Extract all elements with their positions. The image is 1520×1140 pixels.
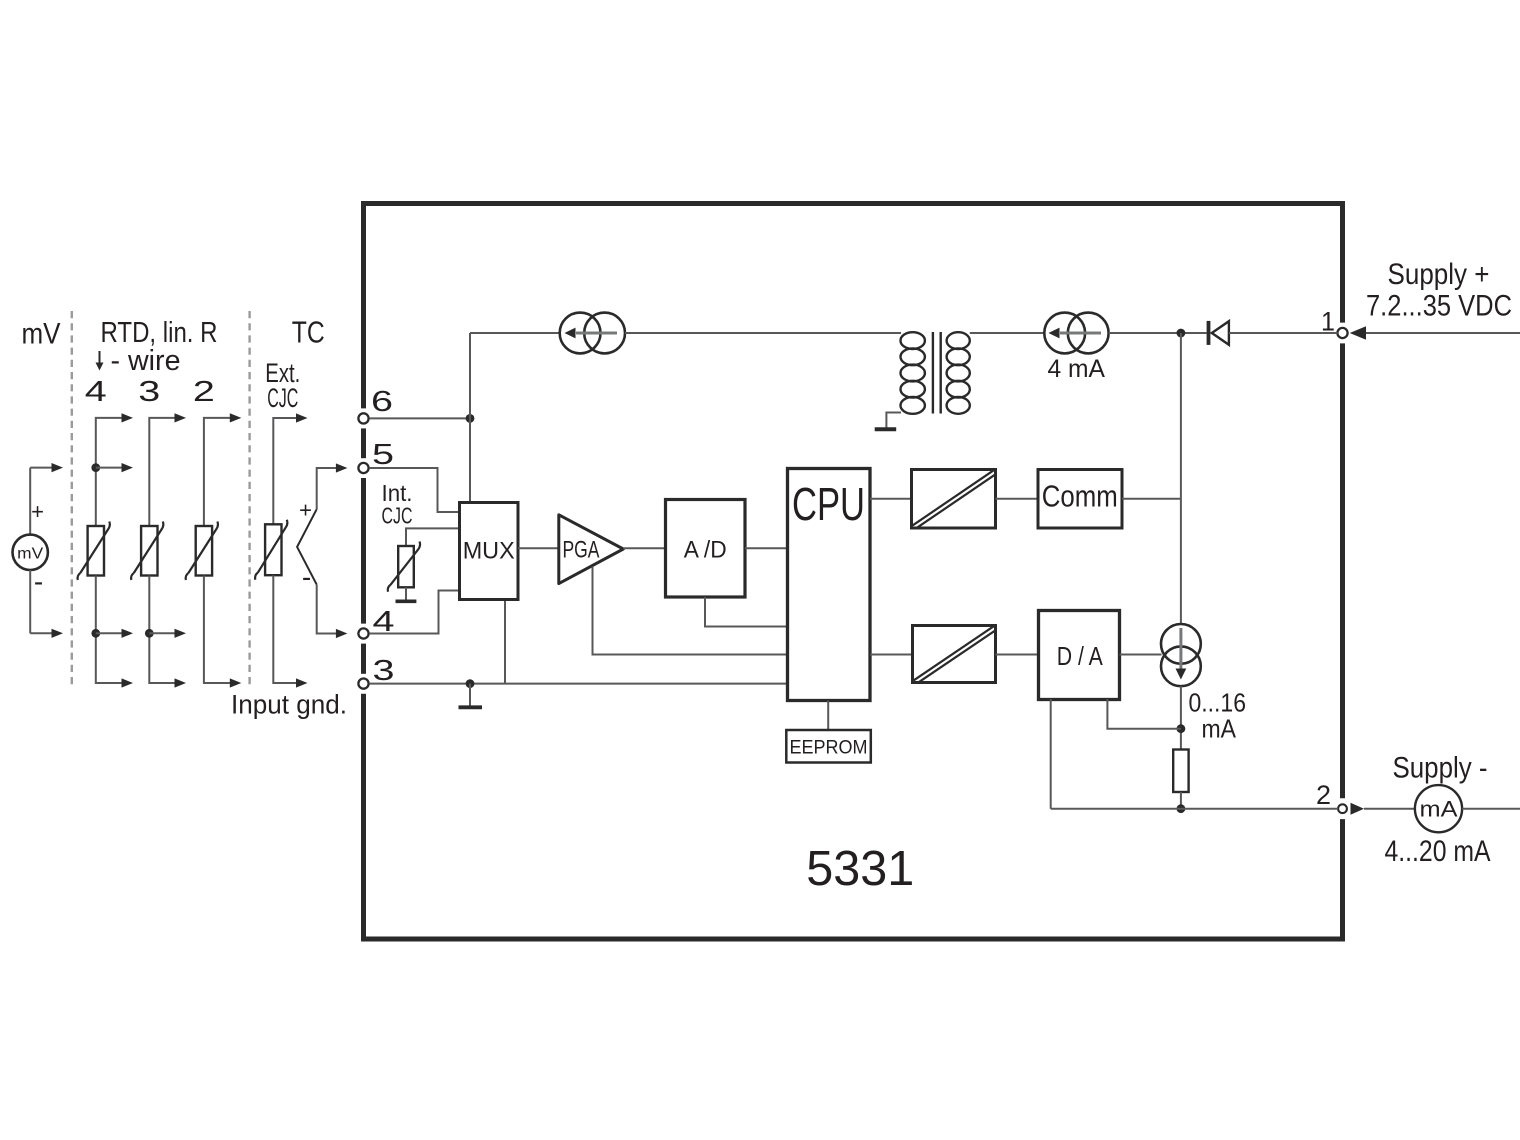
- svg-text:+: +: [31, 499, 44, 524]
- svg-text:4...20 mA: 4...20 mA: [1385, 835, 1491, 868]
- wire terminal 4 to MUX: [369, 591, 459, 634]
- transformer primary bottom lead to ground: [886, 413, 901, 429]
- svg-text:mA: mA: [1202, 714, 1237, 744]
- RTD 3-wire column top lead with arrow: [149, 418, 177, 526]
- MUX block: [460, 503, 519, 600]
- TC resistor (Ext. CJC lin. R symbol): [265, 524, 281, 575]
- mV + lead arrow to input: [30, 467, 54, 469]
- supply + wire outside: [1366, 332, 1520, 334]
- wire D/A left stub down to output rail: [1050, 699, 1052, 809]
- svg-text:mV: mV: [22, 318, 61, 351]
- svg-text:6: 6: [371, 386, 393, 418]
- CS3 arrow (current direction down): [1179, 628, 1182, 670]
- ground symbol stem: [469, 684, 471, 706]
- wire isolation barrier 1 to Comm: [996, 498, 1040, 500]
- CS2 arrow (current direction left): [1060, 332, 1101, 335]
- ground symbol bar: [459, 705, 483, 709]
- mV source vertical wire upper: [29, 468, 31, 535]
- RTD resistor column 4 (lin. R symbol): [88, 526, 104, 576]
- RTD 2-wire column top lead with arrow: [204, 418, 232, 526]
- svg-text:A /D: A /D: [684, 537, 727, 564]
- node junction output rail: [1177, 804, 1186, 813]
- down arrow glyph before -wire: [99, 351, 101, 364]
- mV source circle: [13, 535, 48, 570]
- terminal 5 circle: [358, 463, 368, 473]
- wire terminal 6 to junction: [369, 417, 470, 419]
- wire supply rail down right side: [1180, 333, 1182, 625]
- svg-text:7.2...35 VDC: 7.2...35 VDC: [1366, 290, 1512, 323]
- wire PGA gain control to CPU: [593, 567, 788, 655]
- CS1 arrow (current direction left): [576, 332, 617, 335]
- svg-text:Supply +: Supply +: [1388, 258, 1490, 291]
- diode D1 cathode bar: [1207, 321, 1211, 345]
- EEPROM block: [786, 730, 871, 763]
- arrow into terminal 1: [1350, 326, 1366, 340]
- isolation barrier 2 diagonal lines: [914, 626, 994, 680]
- CPU block: [788, 469, 871, 701]
- wire terminal 2 to mA meter: [1364, 808, 1415, 810]
- current source CS2 4 mA (left circle): [1044, 313, 1085, 354]
- svg-text:2: 2: [1316, 780, 1331, 810]
- svg-text:-: -: [302, 562, 311, 593]
- wire terminal 5 to MUX: [369, 468, 459, 512]
- wire CPU to EEPROM: [827, 701, 829, 731]
- svg-text:mA: mA: [1420, 797, 1458, 822]
- output current source CS3 (bottom circle): [1161, 646, 1201, 686]
- svg-text:3: 3: [138, 376, 160, 408]
- wire D/A feedback right stub: [1107, 699, 1181, 729]
- terminal 1 circle: [1337, 328, 1347, 338]
- Int CJC sensor top lead to MUX: [406, 528, 460, 546]
- main enclosure box, bottom edge: [361, 937, 1345, 942]
- svg-text:- wire: - wire: [111, 345, 181, 377]
- A/D converter block: [666, 500, 746, 598]
- RTD 4-wire second lead arrow: [96, 467, 124, 469]
- RTD 4-wire column top lead with arrow: [96, 418, 124, 526]
- isolation barrier 1 block: [912, 470, 996, 529]
- RTD 4-wire junction dot upper: [91, 463, 100, 472]
- svg-text:Comm: Comm: [1042, 479, 1118, 514]
- svg-text:5331: 5331: [806, 841, 914, 896]
- main enclosure box (5331 module outline), top edge: [361, 201, 1345, 206]
- wire A/D control to CPU: [705, 597, 788, 627]
- wire MUX bottom to input gnd rail: [504, 600, 506, 684]
- svg-text:TC: TC: [292, 315, 325, 350]
- current source CS2 4 mA (right circle): [1068, 313, 1109, 354]
- current source CS1 (right circle): [584, 313, 625, 354]
- wire CS1 to transformer primary: [625, 332, 901, 334]
- wire junction down to MUX top: [469, 418, 471, 502]
- arrow out of terminal 2: [1351, 803, 1365, 815]
- wire output rail to terminal 2: [1051, 808, 1338, 810]
- node junction D/A feedback: [1177, 724, 1186, 733]
- sense resistor R1: [1173, 750, 1188, 793]
- isolation barrier 2 block: [913, 626, 996, 683]
- svg-text:CJC: CJC: [267, 383, 298, 413]
- TC junction lower lead arrow to terminal 4: [317, 585, 339, 634]
- svg-text:Input gnd.: Input gnd.: [231, 690, 347, 720]
- separator dashed line 2: [248, 311, 250, 687]
- wire CPU to isolation barrier 1: [870, 498, 912, 500]
- wire A/D output to CPU: [745, 547, 788, 549]
- terminal 6 circle: [358, 413, 368, 423]
- wire D/A to output current source CS3: [1120, 654, 1162, 656]
- wire CS2 to diode: [1109, 332, 1207, 334]
- svg-text:Supply -: Supply -: [1393, 752, 1488, 785]
- node junction on terminal-6 net: [466, 414, 475, 423]
- RTD resistor column 3 (lin. R symbol): [141, 526, 157, 576]
- wire isolation barrier 2 to D/A: [996, 654, 1040, 656]
- output current source CS3 (top circle): [1161, 624, 1201, 664]
- wire CS3 to sense junction: [1180, 686, 1182, 750]
- terminal 2 circle: [1338, 804, 1347, 813]
- svg-text:4: 4: [85, 376, 107, 408]
- separator dashed line 1: [71, 311, 73, 687]
- svg-text:3: 3: [373, 655, 395, 687]
- current source CS1 (left circle): [560, 313, 601, 354]
- transformer core lines: [932, 332, 934, 414]
- svg-text:MUX: MUX: [463, 538, 515, 565]
- wire supply rail to current source CS1: [470, 332, 560, 334]
- RTD 3-wire column bottom lead with elbow arrow: [149, 576, 177, 684]
- svg-text:2: 2: [193, 376, 215, 408]
- Int CJC sensor resistor (lin. R symbol): [398, 546, 414, 587]
- wire Comm to supply rail: [1122, 498, 1181, 500]
- RTD resistor column 2 (lin. R symbol): [196, 526, 212, 576]
- wire resistor to output rail: [1180, 792, 1182, 809]
- wire terminal 3 input gnd rail: [369, 683, 787, 685]
- svg-text:4 mA: 4 mA: [1048, 355, 1106, 383]
- Int CJC sensor bottom lead: [405, 587, 407, 599]
- RTD 3-wire middle lead arrow: [149, 632, 177, 634]
- TC negative lead bottom elbow arrow to input gnd: [273, 575, 298, 683]
- svg-text:-: -: [34, 566, 43, 597]
- terminal 3 circle: [358, 679, 368, 689]
- svg-text:+: +: [299, 498, 312, 523]
- ground bar (transformer primary): [875, 427, 897, 431]
- wire junction up to isolated supply rail: [469, 333, 471, 418]
- main enclosure box, right edge segments with terminal gaps: [1340, 201, 1345, 323]
- svg-text:EEPROM: EEPROM: [790, 737, 868, 759]
- wire PGA output to A/D: [623, 547, 666, 549]
- transformer T1 primary coil: [901, 332, 925, 349]
- TC junction upper lead arrow to terminal 5: [317, 468, 339, 509]
- mV source vertical wire lower: [29, 570, 31, 633]
- RTD 4-wire junction dot lower: [91, 629, 100, 638]
- mV - lead arrow to input: [30, 632, 54, 634]
- RTD 3-wire junction dot: [145, 629, 154, 638]
- RTD 4-wire third lead arrow: [96, 632, 124, 634]
- isolation barrier 1 diagonal lines: [913, 470, 994, 525]
- Int CJC termination bar: [396, 599, 417, 603]
- node junction on input gnd with ground symbol: [466, 679, 475, 688]
- Comm block: [1038, 470, 1122, 529]
- diode D1 triangle: [1212, 321, 1229, 345]
- D/A converter block: [1039, 611, 1120, 700]
- terminal 4 circle: [358, 628, 368, 638]
- svg-text:mV: mV: [17, 546, 44, 563]
- svg-text:CJC: CJC: [382, 503, 413, 529]
- RTD 2-wire column bottom lead with elbow arrow: [204, 576, 232, 684]
- node junction at diode anode branch: [1177, 329, 1186, 338]
- svg-text:5: 5: [372, 439, 394, 471]
- TC positive lead top elbow arrow to terminal 6: [273, 418, 298, 524]
- svg-text:CPU: CPU: [792, 478, 865, 530]
- thermocouple junction chevron: [297, 509, 317, 584]
- wire mA meter to edge: [1462, 808, 1520, 810]
- main enclosure box, left edge segments with terminal gaps: [361, 201, 366, 408]
- wire transformer secondary to current source CS2: [970, 332, 1045, 334]
- wire MUX to PGA: [518, 547, 559, 549]
- svg-text:PGA: PGA: [563, 537, 600, 564]
- svg-text:D / A: D / A: [1057, 641, 1104, 671]
- op-amp PGA triangle: [559, 515, 624, 584]
- wire CPU to isolation barrier 2: [870, 654, 913, 656]
- transformer T1 secondary coil: [947, 332, 970, 349]
- wire diode to terminal 1: [1229, 332, 1338, 334]
- RTD 4-wire column bottom lead with elbow arrow: [96, 576, 124, 684]
- mA meter circle: [1415, 785, 1462, 832]
